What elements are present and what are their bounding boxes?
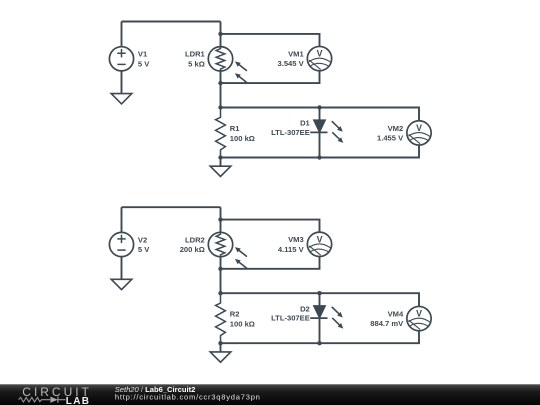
svg-text:LAB: LAB [66,396,89,405]
wire to ground [220,158,222,167]
light arrow 2 from D2 [331,316,345,330]
junction node [218,341,222,345]
logo diode [50,397,57,403]
wire to voltmeter top [221,220,320,233]
wire voltmeter bottom [221,257,320,269]
junction node [317,341,321,345]
junction node [218,32,222,36]
svg-text:4.115 V: 4.115 V [278,245,305,254]
LED D2 [314,306,326,318]
svg-text:D1: D1 [300,119,310,128]
svg-text:1.455 V: 1.455 V [377,133,404,142]
ground GND [210,352,231,362]
svg-text:V: V [416,309,422,319]
wire to ground [220,343,222,352]
svg-text:5 V: 5 V [138,59,150,68]
voltage source V1 [109,47,133,71]
svg-text:3.545 V: 3.545 V [278,59,305,68]
ground GND [111,94,132,104]
wire LED cathode [319,132,321,157]
svg-text:V: V [317,234,323,244]
svg-text:R1: R1 [230,124,240,133]
ground GND [210,166,231,176]
wire top rail to meter [221,108,420,121]
junction node [317,291,321,295]
wire LED anode [319,108,321,121]
junction node [317,105,321,109]
svg-text:5 kΩ: 5 kΩ [188,59,205,68]
voltmeter VM4 [407,306,431,330]
junction node [317,155,321,159]
junction node [218,81,222,85]
svg-text:884.7 mV: 884.7 mV [370,319,404,328]
light arrow 1 into LDR1 [233,59,248,72]
junction node [218,267,222,271]
wire top horizontal [122,206,221,208]
voltmeter VM3 [307,232,331,256]
wire LDR down [220,257,222,294]
light arrow 2 from D1 [331,130,345,144]
svg-text:VM4: VM4 [388,310,404,319]
light arrow 1 from D2 [330,305,344,319]
resistor R2 [216,293,226,343]
LED D1 [314,120,326,132]
wire voltmeter bottom [221,71,320,83]
light arrow 2 into LDR2 [233,257,248,270]
svg-text:D2: D2 [300,304,310,313]
light arrow 2 into LDR1 [233,71,248,84]
svg-text:R2: R2 [230,310,240,319]
wire down to LDR [220,22,222,47]
svg-text:LDR1: LDR1 [185,50,206,59]
light arrow 1 from D1 [330,119,344,133]
junction node [218,105,222,109]
svg-text:V2: V2 [138,235,147,244]
wire to voltmeter top [221,34,320,47]
wire source to ground [121,257,123,280]
junction node [218,155,222,159]
junction node [218,291,222,295]
wire top horizontal [122,21,221,23]
ground GND [111,279,132,289]
svg-text:LTL-307EE: LTL-307EE [271,128,310,137]
svg-text:100 kΩ: 100 kΩ [230,320,255,329]
svg-text:VM1: VM1 [288,50,304,59]
svg-text:http://circuitlab.com/ccr3q8yd: http://circuitlab.com/ccr3q8yda73pn [115,392,260,401]
wire LDR down [220,71,222,108]
svg-text:100 kΩ: 100 kΩ [230,134,255,143]
logo resistor squiggle [19,397,51,402]
svg-text:200 kΩ: 200 kΩ [180,245,205,254]
svg-text:VM3: VM3 [288,235,304,244]
wire bottom rail [221,331,420,343]
resistor R1 [216,108,226,158]
wire top rail to meter [221,293,420,306]
svg-text:5 V: 5 V [138,245,150,254]
wire source to ground [121,71,123,94]
voltage source V2 [109,232,133,256]
wire down to LDR [220,207,222,232]
svg-text:V: V [416,123,422,133]
photoresistor LDR1 [208,47,232,71]
svg-text:LDR2: LDR2 [185,235,205,244]
voltmeter VM2 [407,121,431,145]
photoresistor LDR2 [208,232,232,256]
wire bottom rail [221,146,420,158]
wire LED anode [319,293,321,306]
svg-text:V: V [317,49,323,59]
svg-text:VM2: VM2 [388,124,404,133]
wire V2 top lead [121,207,123,232]
junction node [218,217,222,221]
svg-text:V1: V1 [138,50,148,59]
light arrow 1 into LDR2 [233,245,248,258]
voltmeter VM1 [307,46,331,70]
wire LED cathode [319,318,321,343]
svg-text:LTL-307EE: LTL-307EE [271,314,310,323]
footer bar [0,384,540,405]
wire V1 top lead [121,22,123,47]
